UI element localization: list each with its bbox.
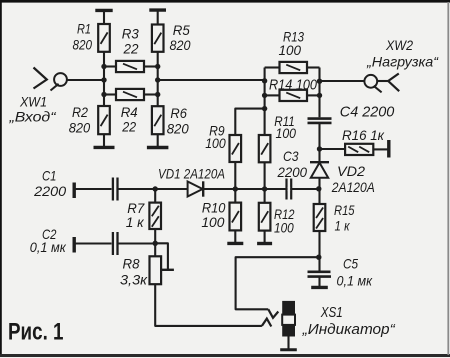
svg-text:Рис. 1: Рис. 1 [8, 319, 64, 346]
resistor R7 [149, 203, 161, 229]
svg-text:R8: R8 [123, 256, 140, 272]
wire R13 right stub [307, 66, 320, 68]
resistor R14 [280, 90, 308, 101]
terminal of C1 [72, 183, 75, 199]
svg-text:VD1 2А120А: VD1 2А120А [158, 166, 225, 182]
svg-text:„Вход“: „Вход“ [8, 109, 57, 125]
ground below XS1 [280, 348, 297, 351]
wire node mid to R10 [234, 189, 236, 203]
svg-text:100: 100 [274, 220, 294, 236]
svg-text:R2: R2 [72, 104, 88, 120]
border frame right [447, 2, 449, 355]
wire R14 right stub [307, 94, 320, 96]
resistor R3 [116, 61, 144, 72]
svg-text:R14 100: R14 100 [269, 78, 317, 94]
wire R9 to node mid [234, 162, 236, 189]
diode VD1 [188, 181, 204, 196]
wire R6 to ground [157, 134, 159, 147]
svg-text:XW1: XW1 [19, 94, 47, 110]
XS1 lower plug prong [262, 319, 271, 327]
node R16 branch [317, 146, 322, 151]
wire R7 to C2 node [154, 229, 156, 243]
node mid-input [155, 77, 160, 82]
node XS1 branch [316, 255, 321, 260]
diode VD2 [310, 162, 329, 178]
wire R10 to ground [234, 230, 236, 243]
svg-text:100: 100 [276, 125, 297, 141]
connector XW2 fork [388, 74, 399, 92]
svg-text:R1: R1 [77, 21, 91, 37]
rail bar above R5 [149, 8, 166, 11]
wire R15 node to XS1 upper prong [236, 257, 319, 309]
connector XW2 circle [364, 75, 377, 88]
svg-text:1 к: 1 к [126, 214, 145, 230]
wire node A column [264, 68, 266, 110]
resistor R15 [314, 204, 326, 231]
svg-text:„Нагрузка“: „Нагрузка“ [366, 54, 439, 70]
wire R13 left stub [265, 66, 280, 68]
wire R8 tap [155, 243, 168, 269]
wire R16 right stub [373, 148, 388, 150]
wire node mid to R12 [264, 189, 266, 203]
wire C2 terminal to plates [74, 242, 111, 244]
node mid-R3 [155, 64, 160, 69]
node left-R4 [101, 92, 106, 97]
wire R8 bottom to XS1 lower prong [155, 284, 262, 326]
svg-text:R3: R3 [122, 26, 139, 42]
node B output [317, 79, 322, 84]
ground below R6 [147, 146, 169, 149]
wire R11 top stub [264, 109, 266, 135]
connector XW1 fork [34, 68, 47, 89]
svg-text:R5: R5 [173, 22, 190, 38]
node R7 top [153, 186, 158, 191]
svg-text:820: 820 [69, 120, 91, 136]
resistor R12 [259, 203, 271, 231]
ground below R2 [94, 146, 115, 149]
svg-text:3,3к: 3,3к [120, 272, 148, 288]
svg-text:XS1: XS1 [320, 304, 343, 321]
svg-text:R6: R6 [170, 105, 187, 121]
border frame top [0, 0, 450, 3]
wire R9 branch [235, 109, 264, 135]
resistor R2 [98, 106, 110, 134]
wire C2 to R7 node [118, 242, 155, 244]
svg-text:R16 1к: R16 1к [342, 127, 385, 143]
rail bar above R1 [95, 9, 112, 12]
svg-text:0,1 мк: 0,1 мк [30, 239, 67, 255]
resistor R11 [259, 135, 271, 162]
svg-text:820: 820 [73, 37, 93, 53]
node mid c11 [262, 186, 267, 191]
svg-text:820: 820 [167, 121, 189, 137]
wire VD2 to R15 [318, 178, 320, 204]
node mid-R4 [155, 92, 160, 97]
resistor R6 [152, 106, 164, 134]
capacitor C3 [285, 179, 287, 200]
wire R15 to C5 [318, 231, 320, 271]
svg-text:2А120А: 2А120А [331, 179, 375, 195]
wire R16 left stub [320, 148, 346, 150]
resistor R5 [152, 25, 164, 52]
resistor R9 [230, 135, 242, 162]
capacitor C5 [308, 272, 332, 277]
node mid c9 [233, 186, 238, 191]
wire R2 to ground [103, 134, 105, 147]
wire R12 to ground [264, 231, 266, 244]
svg-text:820: 820 [170, 37, 191, 53]
svg-text:XW2: XW2 [385, 37, 413, 53]
R8 tap contact bar [161, 269, 174, 271]
socket XS1 body [282, 301, 295, 337]
resistor R10 [230, 203, 242, 231]
node left-input [101, 77, 106, 82]
wire R5 to R6 [157, 52, 159, 106]
wire R11 to node mid [264, 162, 266, 189]
wire node B to XW2 [320, 80, 365, 82]
connector XW2 oblique stroke [374, 86, 382, 93]
wire R4 right stub [144, 93, 158, 95]
svg-text:VD2: VD2 [337, 163, 365, 179]
svg-text:100: 100 [205, 135, 226, 151]
border frame left [0, 0, 2, 357]
capacitor C1 [113, 178, 118, 201]
node R7 bottom [153, 241, 158, 246]
node A R14 [262, 93, 267, 98]
wire R1 to R2 [103, 52, 105, 106]
C3 wire gap mask [288, 187, 291, 191]
svg-text:R15: R15 [334, 202, 355, 218]
wire mid column to node A [158, 79, 265, 81]
wire R3 left stub [104, 65, 116, 67]
resistor R13 [280, 62, 308, 73]
wire R14 left stub [265, 94, 280, 96]
resistor R16 [345, 144, 373, 155]
svg-text:2200: 2200 [33, 183, 66, 199]
svg-text:C4 2200: C4 2200 [340, 105, 395, 121]
wire XS1 to ground [287, 337, 289, 350]
resistor R4 [116, 89, 144, 100]
wire C4 to VD2 [318, 123, 320, 162]
wire XW2 stub [377, 80, 388, 82]
ground below R12 [257, 242, 272, 245]
node A input [262, 78, 267, 83]
svg-text:100: 100 [201, 214, 224, 230]
wire VD1 to node B column [203, 188, 319, 190]
capacitor C4 [308, 119, 332, 123]
wire rail to R1 [103, 10, 105, 24]
svg-text:100: 100 [279, 42, 302, 58]
wire C1 to VD1 [118, 188, 188, 190]
svg-text:22: 22 [121, 119, 136, 135]
svg-text:1 к: 1 к [335, 218, 351, 234]
svg-text:22: 22 [123, 41, 139, 57]
wire R4 left stub [104, 93, 116, 95]
svg-text:0,1 мк: 0,1 мк [337, 273, 374, 289]
wire node B column [318, 68, 320, 118]
wire R3 right stub [144, 65, 158, 67]
node left-R3 [101, 64, 106, 69]
ground below R10 [227, 242, 243, 245]
node A R9-branch [262, 106, 267, 111]
svg-text:C3: C3 [283, 148, 299, 164]
capacitor C2 [113, 232, 118, 255]
wire rail to R5 [157, 10, 159, 24]
wire C5 to ground [318, 277, 320, 288]
wire C1 terminal to plates [74, 188, 111, 190]
connector XW1 circle [54, 73, 67, 86]
wire XW1 to left column [67, 79, 104, 81]
resistor R8 [150, 256, 162, 284]
border frame bottom [0, 354, 450, 357]
ground below C5 [311, 286, 328, 289]
wire R7 top stub [154, 189, 156, 203]
node B R14 [317, 93, 322, 98]
connector XW1 oblique stroke [51, 84, 59, 91]
wire R7 node to R8 [154, 243, 156, 256]
node C3 right [316, 186, 321, 191]
svg-text:C1: C1 [42, 168, 57, 184]
svg-text:C5: C5 [343, 256, 358, 272]
terminal of C2 [72, 237, 75, 253]
resistor R1 [98, 24, 110, 52]
svg-text:„Индикатор“: „Индикатор“ [302, 322, 396, 338]
terminal bar right of R16 [387, 140, 390, 158]
XS1 upper plug prong [268, 309, 278, 318]
svg-text:2200: 2200 [277, 164, 308, 180]
